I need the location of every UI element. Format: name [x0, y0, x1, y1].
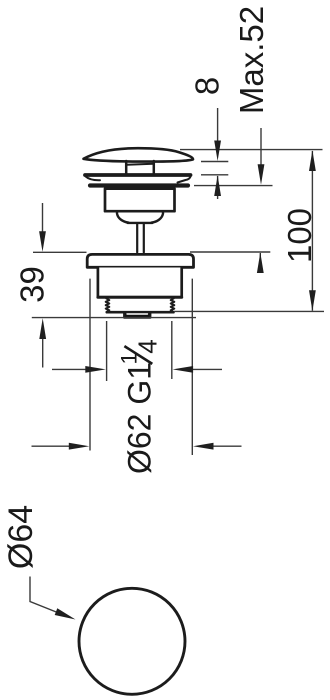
extension line bottom left (39 / tab bottom): [32, 317, 196, 319]
arrow 39 top (down): [39, 231, 46, 252]
svg-text:8: 8: [189, 77, 226, 95]
svg-text:Ø64: Ø64: [2, 505, 40, 569]
dim line G right: [192, 368, 222, 370]
stem: [137, 224, 144, 253]
arrow 8 top (down): [214, 141, 221, 162]
extension line dome apex right: [180, 149, 323, 151]
arrow G right (left): [173, 366, 194, 373]
arrow d64 leader: [55, 608, 76, 619]
leader line d64: [30, 577, 60, 614]
arrow Max.52 (up to lower flange top): [257, 252, 264, 273]
dim line 8 upper: [217, 108, 219, 142]
lower body: [98, 268, 182, 298]
arrow d62 right (left): [193, 443, 214, 450]
funnel bottom rim: [128, 222, 153, 224]
upper flange bottom rim: [90, 183, 188, 187]
thread left zigzag: [106, 298, 110, 312]
extension line cap top edge (8 dim upper tick): [201, 161, 228, 163]
bottom tab: [124, 312, 150, 317]
lower flange: [87, 254, 193, 267]
arrow d62 left (right): [69, 443, 90, 450]
dim line 39 upper: [42, 203, 44, 232]
bottom tab highlight: [127, 313, 148, 315]
dim line Max.52 upper: [260, 128, 262, 165]
upper flange right edge curl: [178, 176, 191, 183]
extension line flange top (8 dim lower tick): [201, 174, 228, 176]
extension line lower flange top right: [190, 251, 270, 253]
dim line 8 lower tail: [217, 176, 219, 199]
dome cap: [84, 148, 194, 161]
arrow 100 bottom (down): [309, 290, 316, 311]
extension line lower flange top left (39): [33, 251, 87, 253]
funnel below body: [117, 211, 163, 222]
label fraction slash: [124, 346, 152, 364]
thread bottom edge: [107, 311, 174, 314]
lower body bottom edge: [98, 296, 182, 299]
svg-text:Ø62 G1: Ø62 G1: [122, 362, 158, 474]
svg-text:Max.52: Max.52: [233, 6, 270, 114]
arrow Max.52 (down to flange bottom): [258, 164, 265, 185]
arrow 100 top (up): [309, 150, 316, 171]
arrow 39 bottom (up): [39, 318, 46, 339]
svg-text:4: 4: [132, 339, 162, 353]
cap neck: [126, 161, 154, 175]
extension line thread left vertical (G): [106, 321, 108, 381]
dim line d62 right: [213, 445, 242, 447]
upper flange top surface: [85, 173, 191, 177]
circle d64 top view: [79, 588, 185, 694]
extension line flange left vertical (d62): [89, 279, 91, 451]
dim line 39 lower tail: [42, 338, 44, 368]
dim line 100: [311, 151, 313, 311]
thread right zigzag: [171, 298, 175, 312]
arrow 8 bottom (up): [214, 175, 221, 196]
extension line flange right vertical (d62): [191, 279, 193, 455]
upper flange left edge curl: [86, 176, 101, 180]
svg-text:39: 39: [14, 266, 51, 303]
dim line d62 left: [32, 445, 70, 447]
extension line flange bottom right: [194, 185, 273, 187]
dim line Max.52 lower tail: [259, 253, 261, 268]
cap neck groove: [127, 164, 153, 165]
arrow G left (right): [85, 366, 106, 373]
dim line G left: [52, 368, 86, 370]
extension line thread right vertical (G): [171, 321, 173, 379]
upper body: [105, 189, 175, 212]
extension line thread bottom right (100): [174, 310, 324, 312]
svg-text:100: 100: [281, 208, 318, 263]
